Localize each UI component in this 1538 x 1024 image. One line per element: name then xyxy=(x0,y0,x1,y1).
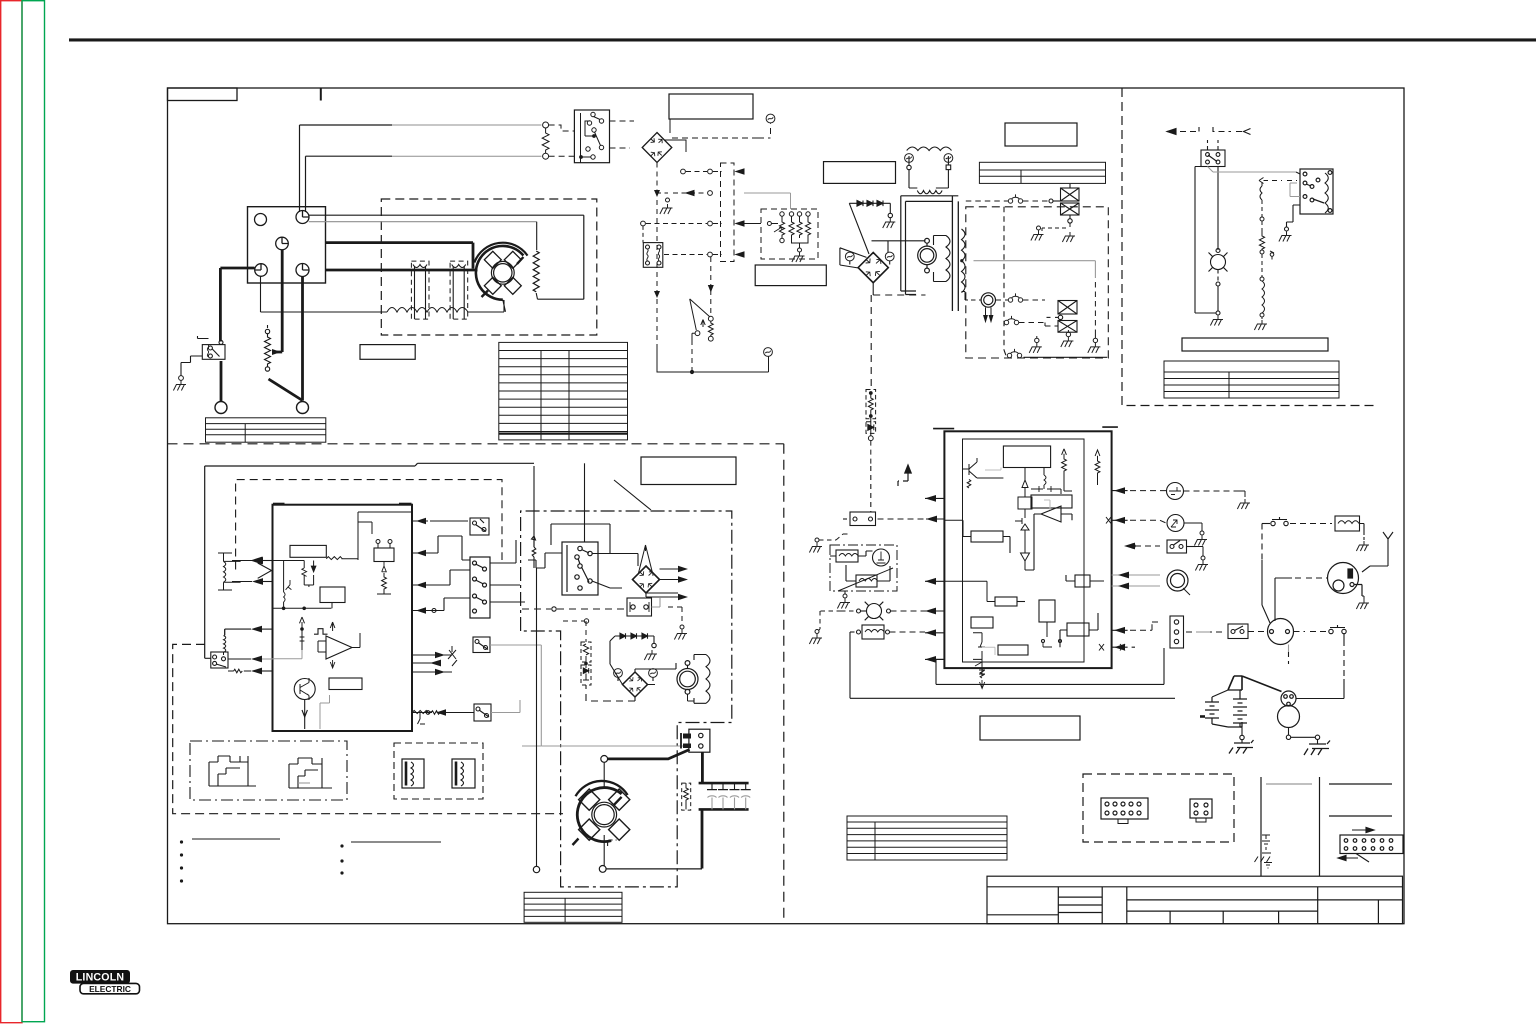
engine terminal circles xyxy=(255,211,310,277)
wire dashed from bridge to plug top xyxy=(672,124,771,139)
resistor R vertical between leads xyxy=(542,128,549,153)
terminal circles on leads xyxy=(543,122,549,128)
motor bridge lower xyxy=(623,672,648,697)
wire elbows to connector xyxy=(549,125,574,156)
wire: slip ring leads up from engine xyxy=(300,125,393,212)
pcb2 label rect xyxy=(1003,446,1050,468)
wire down from lamp left + ground xyxy=(815,611,841,634)
label box idler xyxy=(755,265,826,286)
rheostat (idle pot) xyxy=(265,325,271,371)
primary winding right of core xyxy=(962,229,966,293)
tick top xyxy=(320,88,322,101)
dashed box: transformers bottom xyxy=(394,743,483,799)
pcb1 left arrows xyxy=(252,557,273,671)
plug symbol idler xyxy=(764,348,773,357)
contact row2 xyxy=(1008,293,1022,302)
bottom right panel box xyxy=(1261,777,1392,876)
resistor chain center (dashed boxes) xyxy=(866,390,876,467)
wire CT elbow xyxy=(962,292,982,301)
rotor assembly xyxy=(573,763,630,867)
engine block box xyxy=(248,207,326,283)
CT dashed box 2 xyxy=(450,261,468,319)
alternator charge circle xyxy=(1167,570,1190,595)
starter motor xyxy=(1278,706,1300,728)
hourmeter coil box xyxy=(850,625,925,639)
wire from pressure switch to bus xyxy=(657,333,769,373)
pcb1 label rect xyxy=(290,545,326,557)
gauge row 2 with ground xyxy=(656,190,791,209)
terminal rail dashed vertical xyxy=(721,163,735,262)
dashed box: connectors bottom xyxy=(1083,774,1234,842)
connector J2 4pin xyxy=(1190,799,1212,822)
wire relay to ground xyxy=(181,356,202,376)
temp sender xyxy=(1167,515,1184,532)
dashed box: lower-left inner xyxy=(173,644,563,813)
valve V3 xyxy=(1058,321,1077,333)
run-stop switch xyxy=(1294,625,1347,676)
grounds in bottom right panel xyxy=(1255,835,1273,868)
switch bank box xyxy=(470,557,490,618)
wire: control box top rail xyxy=(205,463,534,658)
capacitor bank xyxy=(699,783,751,809)
pressure switch ground xyxy=(1196,547,1205,561)
wires from senders to pcb2 xyxy=(1130,491,1166,631)
CT dashed box 1 xyxy=(411,261,429,319)
wires row2/3/4 to switch bank xyxy=(412,536,470,614)
antenna symbol xyxy=(1362,532,1393,572)
schematic border frame xyxy=(168,88,1405,924)
label box wirefeed xyxy=(641,457,736,485)
relay K2 box xyxy=(205,652,228,668)
dash-dot box: switch assembly xyxy=(521,511,732,887)
bridge W2 diamond xyxy=(633,566,660,593)
grounds row xyxy=(1035,330,1098,343)
diode string lower xyxy=(610,633,656,664)
starter button switch xyxy=(1228,624,1248,639)
table: parts table mid-right xyxy=(847,816,1007,860)
starter wires xyxy=(1289,645,1345,699)
resistor network dashed box xyxy=(761,209,818,259)
starter ground xyxy=(1286,728,1319,745)
small connector 4pin xyxy=(1201,140,1225,167)
pilot relay circle xyxy=(1268,619,1294,645)
svg-text:ELECTRIC: ELECTRIC xyxy=(89,984,131,994)
starter solenoid xyxy=(1281,691,1296,706)
CT1 winding xyxy=(413,265,427,320)
wire bottom rails xyxy=(850,632,1175,698)
transformer T2 top (CT) xyxy=(907,147,952,194)
green margin bar xyxy=(22,1,45,1022)
wire lamp dashes to ignition xyxy=(1295,577,1327,579)
resistor network contents xyxy=(774,212,811,252)
wires from switch bank right xyxy=(490,540,525,602)
arrow up symbol left of pcb2 xyxy=(898,465,911,489)
resistor right of K2 xyxy=(228,659,251,673)
toggle switch box A xyxy=(470,518,489,535)
rotor bottom terminal xyxy=(599,866,606,873)
wire to terminal left xyxy=(522,598,660,611)
plug symbol top xyxy=(766,114,775,123)
selector wires xyxy=(528,524,638,588)
pcb2 left edge arrows xyxy=(925,498,944,659)
arrow left xyxy=(1167,127,1251,135)
dashed box: generator/alternator xyxy=(381,199,597,335)
pcb2 transistor top-left xyxy=(963,458,1003,488)
pcb1 top tick xyxy=(273,503,285,506)
pointer line to label xyxy=(614,480,651,510)
valve V2 xyxy=(1047,301,1078,320)
motor field coil xyxy=(934,236,951,282)
wire: aux winding bottom xyxy=(261,277,388,313)
pressure switch xyxy=(690,299,714,341)
weld bridge SCR xyxy=(858,253,888,283)
label box top right xyxy=(1005,123,1077,146)
transformer symbol 2 xyxy=(452,759,475,788)
x marks on wires xyxy=(1099,517,1125,651)
relay K1 (fuel) xyxy=(198,336,226,359)
dashed box: engine protection xyxy=(966,207,1109,358)
connector pins xyxy=(580,112,604,159)
title tab top-left xyxy=(168,88,238,101)
svg-text:LINCOLN: LINCOLN xyxy=(76,972,124,984)
wire to relay xyxy=(1248,631,1266,633)
label bar above tableD xyxy=(1182,338,1328,351)
battery ground xyxy=(1240,722,1244,743)
dash-dot box: relays bottom left xyxy=(190,741,347,800)
relay coil wire + ground xyxy=(1285,205,1301,231)
wires around weld bridge xyxy=(840,241,926,295)
bullets and lines (notes) xyxy=(192,839,441,842)
key switch wire dashes xyxy=(1186,631,1226,633)
glow plug coil boxes xyxy=(830,549,893,591)
battery terminal circles xyxy=(215,402,227,414)
thick wire rotor to brush xyxy=(607,750,702,784)
pcb1 lower section xyxy=(273,617,363,729)
pcb1 resistor top xyxy=(326,557,342,560)
twin bus from transformer xyxy=(901,196,959,295)
wires right of pcb1 row1 xyxy=(412,518,468,524)
inductor winding bottom xyxy=(387,308,468,313)
pcb2 small components row xyxy=(1031,468,1072,509)
wire: stator leads xyxy=(309,215,584,299)
glow plug dash-dot box xyxy=(830,545,897,591)
pcb2 op-amp xyxy=(1034,500,1072,570)
wires down from connector xyxy=(1195,167,1296,314)
pcb2 resistor right top xyxy=(1062,449,1100,491)
wire dashed bridge bottom down xyxy=(656,163,658,346)
wire top from switch assembly to brush xyxy=(522,700,689,746)
red margin bar xyxy=(1,1,22,1023)
contact row3 xyxy=(1004,316,1018,325)
rotor terminal top xyxy=(601,756,608,763)
solenoid valve V1 xyxy=(1049,184,1079,223)
brush block xyxy=(681,729,710,752)
label box generator xyxy=(361,346,416,358)
relay contact drawing 1 xyxy=(209,756,256,786)
exciter field coil right xyxy=(533,251,539,292)
pcb2 center column xyxy=(1015,468,1034,571)
gauge row 1 xyxy=(681,169,744,174)
selector switch outer rect xyxy=(562,542,598,595)
wire: engine left circuit thick xyxy=(220,250,302,402)
wirefeed motor field xyxy=(688,655,711,704)
terminal circle mid xyxy=(584,619,588,623)
table: top right spec table xyxy=(979,162,1105,183)
dashed box: control area right edge xyxy=(783,444,785,924)
bridge plugs xyxy=(845,252,854,261)
fuel sender ground xyxy=(1184,491,1246,497)
ignition switch big circle xyxy=(1328,563,1363,597)
label box bottom right xyxy=(980,716,1080,740)
ground + terminal upper left xyxy=(815,538,819,542)
alternator stator/rotor xyxy=(474,243,527,312)
diode bridge CR1 top xyxy=(642,133,672,163)
relay coil left (bumps) xyxy=(218,553,241,590)
diode string feed xyxy=(849,201,892,255)
zener clamp left of pcb1 xyxy=(232,561,272,582)
wire from engine left down to rotor terminal xyxy=(533,568,539,873)
wire pcb1 bottom exits xyxy=(305,466,536,729)
dashed box: top right remote xyxy=(1122,88,1378,406)
wire: long leads to remote resistor (grey) xyxy=(392,125,542,156)
table: lead list (right of generator) xyxy=(499,342,628,440)
transformer core vertical xyxy=(952,196,958,311)
pcb1 box xyxy=(273,505,413,731)
battery xyxy=(1200,676,1282,848)
table: engine connection (below engine) xyxy=(206,418,326,442)
transformer symbol 1 xyxy=(402,759,424,788)
wire: field thick leads xyxy=(326,243,478,270)
temp sender ground xyxy=(1184,523,1204,535)
pcb1 mid component row xyxy=(358,512,412,594)
wire control rail to selector xyxy=(584,463,586,542)
remote relay box xyxy=(1300,169,1333,214)
CT2 winding xyxy=(452,265,466,320)
ignition circuit top: idle solenoid coil box xyxy=(1335,516,1364,540)
dashed box: pcb1 surround xyxy=(236,480,502,570)
relay contact drawing 2 xyxy=(289,758,332,788)
wires connector to bridge xyxy=(610,121,635,148)
pcb2 right edge arrows xyxy=(1112,491,1160,648)
sensor feed box xyxy=(843,466,925,526)
fuel sender xyxy=(1167,483,1184,500)
CT arrows down xyxy=(984,308,993,322)
wire grey long sense xyxy=(974,261,1096,278)
contact row1 xyxy=(1008,194,1022,203)
connector J3 12pin with arrows xyxy=(1340,835,1403,854)
wires lower bridge xyxy=(586,663,676,701)
pcb2 lower-left small parts xyxy=(973,633,995,689)
relay coil K2 (bumps) xyxy=(224,629,226,655)
dashed right inner rail xyxy=(1094,282,1096,330)
resistor chain dashed (sw assembly) xyxy=(581,621,591,685)
motor M (wire feed) xyxy=(918,238,937,272)
pilot lamp xyxy=(1195,249,1228,316)
pcb1 top rail wires xyxy=(273,547,359,610)
gauge row 4 xyxy=(664,252,744,257)
dashed box: control area top line xyxy=(168,443,784,445)
connector box top center xyxy=(574,110,609,163)
wire rotor bottom to caps xyxy=(606,868,702,870)
top rule bar xyxy=(69,38,1536,41)
indicator lamp xyxy=(841,602,925,621)
toggle sw upper xyxy=(1262,517,1332,623)
arrowhead to pot wiper xyxy=(272,349,281,355)
resistor chain right xyxy=(1259,217,1274,319)
kite shape above bridge xyxy=(639,545,653,573)
label box weld control xyxy=(824,162,896,184)
arrowheads on dashed vertical xyxy=(654,190,660,298)
wires pcb1 lower-right arrows xyxy=(412,646,457,675)
choke component box xyxy=(627,598,652,616)
pressure switch box xyxy=(1167,540,1196,553)
wire loop right of bridge xyxy=(665,119,687,152)
contact row4 + bottom rail xyxy=(1007,349,1021,358)
connector J1 10pin xyxy=(1101,798,1148,824)
toggle switch box C bottom xyxy=(412,700,520,724)
connector 3pin right xyxy=(1170,616,1184,648)
cap discharge resistor dashed xyxy=(682,783,691,810)
ground stub right xyxy=(665,607,684,629)
pcb2 mid rects xyxy=(944,520,1104,655)
arrows out of bridge xyxy=(645,566,688,600)
wire dashed rows to switch rail top xyxy=(710,257,712,316)
ground below glow box xyxy=(843,594,847,598)
label box engine xyxy=(360,345,415,360)
relay CR2 xyxy=(643,243,663,268)
wire from rail to relay area xyxy=(225,629,251,635)
wires to remote relay xyxy=(1259,172,1300,217)
gauge row 3 xyxy=(641,221,778,243)
table: bottom middle rotor table xyxy=(524,892,622,922)
CT sensor circle xyxy=(981,293,995,307)
table: right side notes table xyxy=(1164,361,1339,398)
Lincoln Electric logo xyxy=(71,971,140,995)
wirefeed motor xyxy=(677,661,698,695)
toggle switch box B lower xyxy=(473,637,541,700)
wire row1 xyxy=(966,200,1051,202)
pcb2 box xyxy=(933,427,1118,668)
valve grounds xyxy=(1042,223,1070,231)
label box top center xyxy=(669,94,753,119)
